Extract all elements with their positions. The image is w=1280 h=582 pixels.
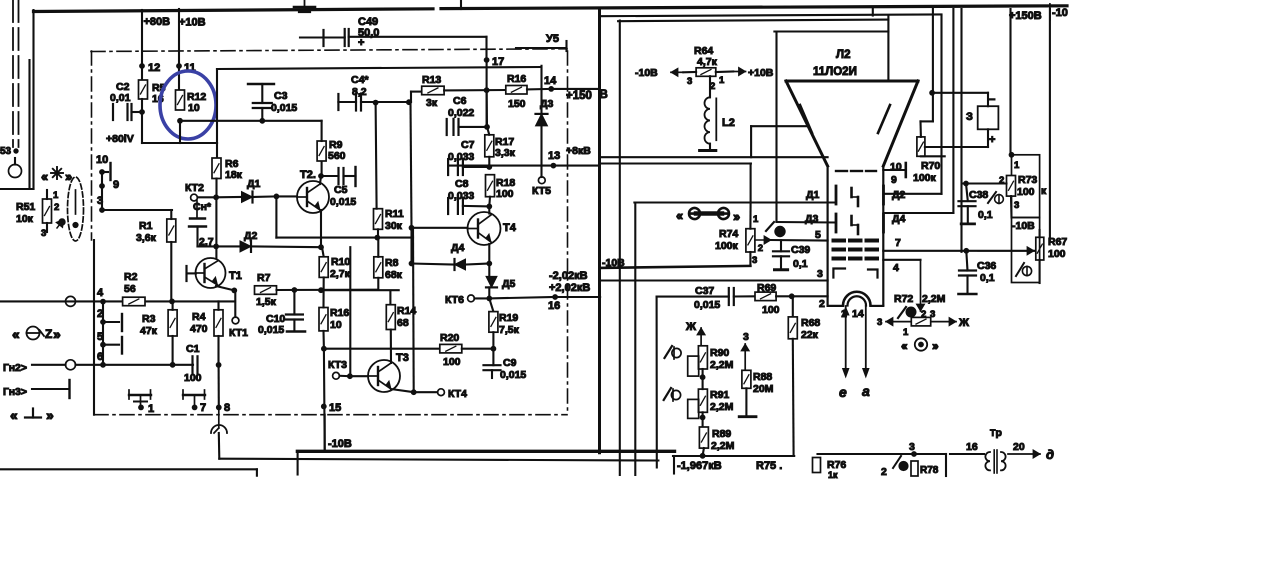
svg-text:R4: R4 (192, 311, 206, 323)
Z input symbol (12, 326, 61, 342)
svg-text:д: д (1046, 447, 1054, 462)
D4 plate wire (884, 212, 953, 214)
node11 to R12 (178, 66, 180, 90)
deflection plate D3 bar (835, 214, 838, 232)
potentiometer R90 (698, 346, 707, 369)
R17 top lead (487, 127, 489, 135)
CRT neck bottom (828, 305, 884, 307)
outer box left edge inner (28, 60, 30, 189)
svg-text:Д1: Д1 (806, 189, 819, 201)
svg-text:560: 560 (328, 150, 346, 162)
svg-text:0,1: 0,1 (980, 272, 995, 284)
battery element (978, 106, 999, 129)
node R90-R91 (700, 375, 705, 380)
resistor R13 (422, 86, 444, 95)
svg-text:1: 1 (53, 190, 59, 201)
lamp symbol (41, 167, 72, 184)
svg-text:«: « (41, 169, 48, 184)
L2 ground bar (700, 149, 716, 152)
C6 left bar (446, 119, 448, 135)
node 8 (216, 405, 221, 410)
resistor R5 (139, 80, 148, 99)
node2 stub (103, 321, 119, 323)
rail +80 (142, 142, 217, 144)
resistor R17 (485, 135, 494, 157)
T2em to R10 (322, 247, 324, 257)
R10 to R15 (322, 277, 324, 307)
bus line y163 (601, 162, 751, 164)
resistor R68 (788, 317, 797, 339)
svg-text:КТ2: КТ2 (185, 182, 204, 194)
node 12 (140, 64, 145, 69)
junction C2-R5 (140, 110, 145, 115)
svg-text:С5: С5 (334, 184, 348, 196)
svg-text:-1,967кВ: -1,967кВ (677, 460, 722, 472)
D4 wire right (466, 264, 490, 265)
svg-text:Т1: Т1 (229, 270, 242, 282)
nested line y20 (618, 20, 888, 22)
transistor T3 (368, 360, 400, 392)
node C4 b (407, 100, 412, 105)
resistor R72 (911, 317, 930, 326)
svg-text:0,022: 0,022 (448, 107, 474, 119)
test point KT5 (538, 177, 545, 184)
svg-text:«: « (901, 339, 908, 353)
R6 to KT2 node (215, 179, 217, 198)
svg-text:15: 15 (329, 402, 341, 414)
C8 wire (463, 205, 489, 208)
node T2 emitter line (319, 245, 324, 250)
svg-text:3: 3 (752, 255, 757, 266)
x217 to R6 (216, 143, 218, 158)
node R4-C1 (216, 363, 221, 368)
svg-text:+150В: +150В (1009, 10, 1042, 22)
node8 down (218, 433, 221, 459)
node12 to R5 (141, 66, 143, 80)
svg-text:16: 16 (966, 441, 978, 453)
svg-text:R75 .: R75 . (756, 460, 782, 472)
vertical KT2node to T1 (215, 197, 217, 258)
R8 bottom wire (321, 289, 399, 291)
potentiometer R73 (1007, 176, 1016, 197)
svg-text:+2,02кВ: +2,02кВ (549, 282, 590, 294)
KT3 wire (340, 375, 350, 378)
svg-text:L2: L2 (722, 117, 735, 129)
vertical x411 lower (410, 228, 412, 264)
svg-text:56: 56 (124, 283, 136, 295)
Cn stem down (196, 227, 198, 247)
node15 vertical (323, 349, 326, 450)
node R73 top (1009, 152, 1014, 157)
transistor T2 (297, 181, 329, 213)
svg-text:Д2: Д2 (244, 230, 257, 242)
bottom box top line (0, 468, 257, 470)
R13 to R16 (444, 89, 506, 92)
cable double line (13, 0, 19, 147)
R20 wire right (462, 348, 494, 350)
node 11 (177, 64, 182, 69)
C38 stem bottom (967, 206, 969, 222)
svg-text:»: » (733, 209, 740, 224)
node 6 (101, 362, 106, 367)
R70 top lead (919, 121, 922, 136)
bus vertical 600 (598, 8, 601, 453)
top power bus (34, 9, 434, 12)
svg-text:3к: 3к (426, 97, 438, 109)
svg-text:R2: R2 (124, 271, 138, 283)
R20 wire left (324, 348, 440, 350)
R91 wiper loop (688, 399, 699, 418)
svg-text:+8кВ: +8кВ (566, 145, 591, 157)
resistor R1 (167, 219, 176, 242)
svg-text:КТ3: КТ3 (328, 359, 347, 371)
vertical 888 anode (887, 16, 889, 82)
C39 ground bar (775, 268, 788, 271)
svg-text:11ЛО2И: 11ЛО2И (813, 66, 857, 78)
svg-text:3: 3 (743, 331, 749, 343)
R51 wiper dot (59, 219, 65, 225)
svg-text:R19: R19 (499, 312, 518, 324)
R90-R91 link (702, 369, 704, 389)
vertical to R11 top (376, 103, 377, 209)
svg-text:-10: -10 (1052, 7, 1068, 19)
svg-text:Ж: Ж (958, 317, 969, 329)
capacitor Cn (189, 201, 206, 227)
R51 wiper arrow (56, 220, 63, 229)
C38 ground bar (961, 222, 974, 225)
T4 collector up (488, 206, 490, 213)
bus +150 left (1009, 9, 1011, 155)
capacitor C9 (484, 365, 501, 370)
node15 tail (324, 415, 326, 450)
svg-text:1: 1 (753, 214, 759, 225)
node17line down C6 (486, 90, 488, 127)
svg-text:R69: R69 (757, 282, 776, 294)
svg-text:9: 9 (113, 179, 119, 191)
R11R8 to x413 (377, 237, 413, 239)
node 17 line junction (484, 88, 489, 93)
svg-text:КТ6: КТ6 (445, 294, 464, 306)
svg-text:Д3: Д3 (540, 98, 553, 110)
C2 wire (132, 111, 143, 113)
resistor R89 (699, 427, 708, 448)
svg-text:9: 9 (891, 174, 897, 186)
deflection plate D4 bar (882, 214, 885, 232)
T3 collector up (390, 330, 392, 364)
pin7 wire (883, 250, 1035, 252)
test point KT6 (468, 295, 475, 302)
wire C49 left (300, 36, 345, 38)
R89 bottom lead (703, 448, 704, 456)
R8 bottom lead (377, 278, 379, 290)
svg-text:20: 20 (1013, 441, 1025, 453)
node 4 (101, 299, 106, 304)
deflection plate D2 bar (882, 186, 885, 204)
node KT2 (214, 195, 219, 200)
diode D2 (240, 241, 251, 252)
node 13 (551, 163, 556, 168)
D3 stem bottom (540, 126, 542, 166)
contact bar node5 (121, 337, 123, 354)
R67 bottom lead (1039, 260, 1041, 283)
shield line right (219, 459, 658, 461)
svg-text:3: 3 (687, 76, 692, 87)
heater wire (818, 453, 947, 455)
resistor R76 (813, 458, 821, 473)
T4 base wire (412, 227, 468, 229)
svg-text:100: 100 (1048, 248, 1066, 260)
pin4 down to R72 (916, 260, 924, 311)
inductor L2 (704, 97, 716, 143)
node 2 (101, 320, 106, 325)
T2 base wire (276, 195, 297, 197)
divider top right (1049, 4, 1051, 20)
input line to C1 (103, 364, 193, 366)
node 1 (139, 405, 144, 410)
svg-text:12: 12 (148, 62, 160, 74)
node D4 left (409, 261, 414, 266)
resistor R70 (917, 137, 925, 156)
svg-text:R3: R3 (142, 313, 156, 325)
svg-text:R91: R91 (710, 389, 729, 401)
svg-text:0,033: 0,033 (448, 151, 474, 163)
svg-text:С7: С7 (461, 139, 475, 151)
anode wire y93 (933, 92, 988, 94)
node C10 (292, 288, 297, 293)
svg-text:+150: +150 (566, 90, 592, 102)
node 15 (321, 404, 326, 409)
svg-text:»: » (932, 339, 939, 353)
svg-text:С39: С39 (791, 244, 810, 256)
Gn3 stem (32, 388, 68, 390)
svg-text:3: 3 (41, 228, 46, 239)
Gn3 end bar (68, 380, 70, 398)
T4 emitter down (488, 244, 490, 264)
capacitor C39 (773, 251, 789, 256)
C4 right wire (361, 101, 411, 103)
svg-text:Д1: Д1 (247, 178, 260, 190)
KT2 to node (198, 196, 214, 198)
node T2 base (274, 194, 279, 199)
node R89 bottom (700, 453, 705, 458)
filament arrow e (843, 306, 849, 377)
R73 box (1012, 155, 1040, 218)
svg-text:47к: 47к (140, 325, 158, 337)
svg-text:16: 16 (548, 300, 560, 312)
arrow to d (1008, 450, 1040, 458)
svg-text:53: 53 (0, 146, 12, 157)
R74 pin3 wire (601, 266, 751, 268)
R64 wiper stem (709, 76, 711, 97)
C5 end bar (354, 167, 356, 186)
svg-text:-10В: -10В (635, 67, 658, 79)
C36 stem bottom (966, 276, 968, 294)
R1 top lead (170, 210, 172, 219)
terminal at 53 (9, 165, 22, 178)
CRT neck outline (828, 166, 884, 305)
preset mark R74 (766, 222, 785, 237)
node R15 bottom (322, 346, 327, 351)
wire y126 to bell (751, 125, 806, 127)
box left edge lower (93, 240, 95, 415)
svg-text:3: 3 (817, 268, 823, 280)
svg-text:R73: R73 (1018, 174, 1037, 186)
svg-text:-10В: -10В (602, 257, 625, 269)
svg-text:-10В: -10В (1012, 220, 1035, 232)
svg-text:100: 100 (1017, 186, 1035, 198)
svg-text:14: 14 (544, 75, 557, 87)
C36 bottom bar (959, 293, 977, 296)
D2 plate wire (884, 193, 942, 195)
arrow to R67 (978, 247, 1034, 255)
capacitor C3 top bar (248, 83, 274, 85)
svg-text:R72: R72 (894, 293, 913, 305)
jack common vertical (102, 302, 104, 365)
R91-R89 link (702, 412, 704, 427)
svg-text:С6: С6 (453, 95, 467, 107)
R74 pin3 lead (749, 252, 751, 266)
node T4 base (409, 225, 414, 230)
svg-text:3: 3 (877, 317, 882, 328)
svg-text:20М: 20М (753, 383, 774, 395)
R67 top lead (1039, 230, 1041, 237)
KT6 line to node16 (489, 297, 555, 298)
R13 left wire (411, 91, 422, 93)
svg-text:0,015: 0,015 (500, 369, 526, 381)
arrow -10V (671, 68, 683, 76)
resistor R4 (214, 310, 223, 336)
resistor R3 (168, 310, 177, 336)
capacitor C1 (193, 356, 198, 373)
resistor R19 (489, 312, 498, 333)
CRT grid dashes row0 (836, 170, 876, 172)
test point KT1 (232, 317, 239, 324)
R15 bottom lead (322, 331, 324, 349)
resistor R78 (911, 461, 918, 476)
capacitor C36 (959, 271, 976, 276)
svg-text:18к: 18к (225, 169, 243, 181)
vertical x413 (412, 228, 415, 392)
C8 left bar (447, 198, 449, 214)
R64 left wire (683, 71, 696, 73)
pin3 wire (601, 279, 828, 281)
svg-text:100: 100 (496, 188, 514, 200)
R9 bottom lead (321, 161, 323, 176)
node R69-R68 (789, 294, 794, 299)
svg-text:R8: R8 (385, 257, 399, 269)
svg-text:Л2: Л2 (836, 49, 850, 61)
R72 arrow right (932, 318, 956, 326)
svg-text:R70: R70 (921, 160, 940, 172)
svg-text:0,015: 0,015 (330, 196, 356, 208)
svg-text:1,5к: 1,5к (256, 296, 277, 308)
C9 stem top (492, 349, 494, 366)
resistor R20 (440, 344, 462, 353)
line to R11 (276, 237, 377, 239)
svg-text:R16: R16 (507, 73, 526, 85)
diode D5 (486, 276, 497, 287)
capacitor C38 (959, 201, 976, 206)
heater corner down (945, 454, 947, 476)
outer box bottom stub (0, 188, 34, 190)
vertical 10-9-3 (101, 172, 103, 210)
arrow up Zh (697, 328, 705, 346)
svg-text:1: 1 (903, 327, 909, 338)
capacitor C4 (356, 94, 361, 111)
svg-text:8: 8 (224, 402, 230, 414)
C5 wire (321, 175, 339, 177)
node KT6 (487, 296, 492, 301)
nested line y15 (599, 14, 941, 16)
resistor R69 (755, 292, 776, 301)
svg-text:2,7к: 2,7к (330, 268, 351, 280)
node R1-R3 (170, 299, 175, 304)
svg-text:2: 2 (758, 243, 763, 254)
vertical 750 down (750, 164, 752, 203)
resistor R12 (176, 90, 185, 110)
R16 to node14 (527, 88, 551, 91)
svg-text:150: 150 (508, 98, 526, 110)
heater wire 2 (950, 453, 984, 455)
R69 to node (776, 295, 792, 297)
C4 left wire (338, 101, 356, 103)
C39 stem top (780, 240, 782, 251)
diode D3 (536, 114, 548, 126)
D3 plate wire (777, 221, 836, 224)
R4 top lead (217, 301, 219, 309)
svg-text:Д2: Д2 (892, 189, 905, 201)
svg-text:3,3к: 3,3к (495, 147, 516, 159)
svg-text:−: − (989, 94, 995, 106)
D3 stem top (540, 89, 542, 114)
svg-text:10: 10 (96, 154, 108, 166)
potentiometer R91 (698, 389, 707, 412)
capacitor C49 (324, 29, 349, 46)
T1 base wire (188, 272, 197, 274)
R70 bottom stub (921, 155, 945, 157)
D2 wire right (252, 245, 322, 248)
vertical 953 to D4 (952, 9, 954, 213)
wire node10 to bar (102, 171, 108, 173)
C9 stem bottom (491, 370, 493, 378)
capacitor C2 (113, 104, 132, 120)
node D4-T4 (487, 261, 492, 266)
wire under U5 (516, 47, 567, 49)
svg-text:2: 2 (54, 202, 59, 213)
R8 top lead (377, 238, 379, 257)
divider box bottom (673, 455, 794, 457)
R51 bottom lead (46, 223, 48, 232)
line R12node to R9 (180, 120, 322, 122)
bus vertical 620 (619, 21, 621, 476)
capacitor C7 (458, 159, 463, 175)
svg-text:2,2М: 2,2М (922, 293, 946, 305)
svg-text:КТ5: КТ5 (532, 185, 551, 197)
R70 riser (932, 93, 934, 122)
KT5 stem (540, 166, 542, 177)
junction below R12 (178, 118, 183, 123)
test point KT2 (191, 194, 198, 201)
svg-text:7: 7 (200, 402, 206, 414)
R68 bottom lead (792, 339, 795, 456)
svg-text:+10В: +10В (179, 17, 206, 29)
D1 to T2 base node (253, 195, 276, 198)
node C36 (964, 248, 969, 253)
deflection plate pair upper (852, 188, 859, 206)
dash-dot box top (91, 49, 567, 52)
T1 base coupling bar (185, 266, 187, 281)
vertical x217 (216, 69, 218, 143)
